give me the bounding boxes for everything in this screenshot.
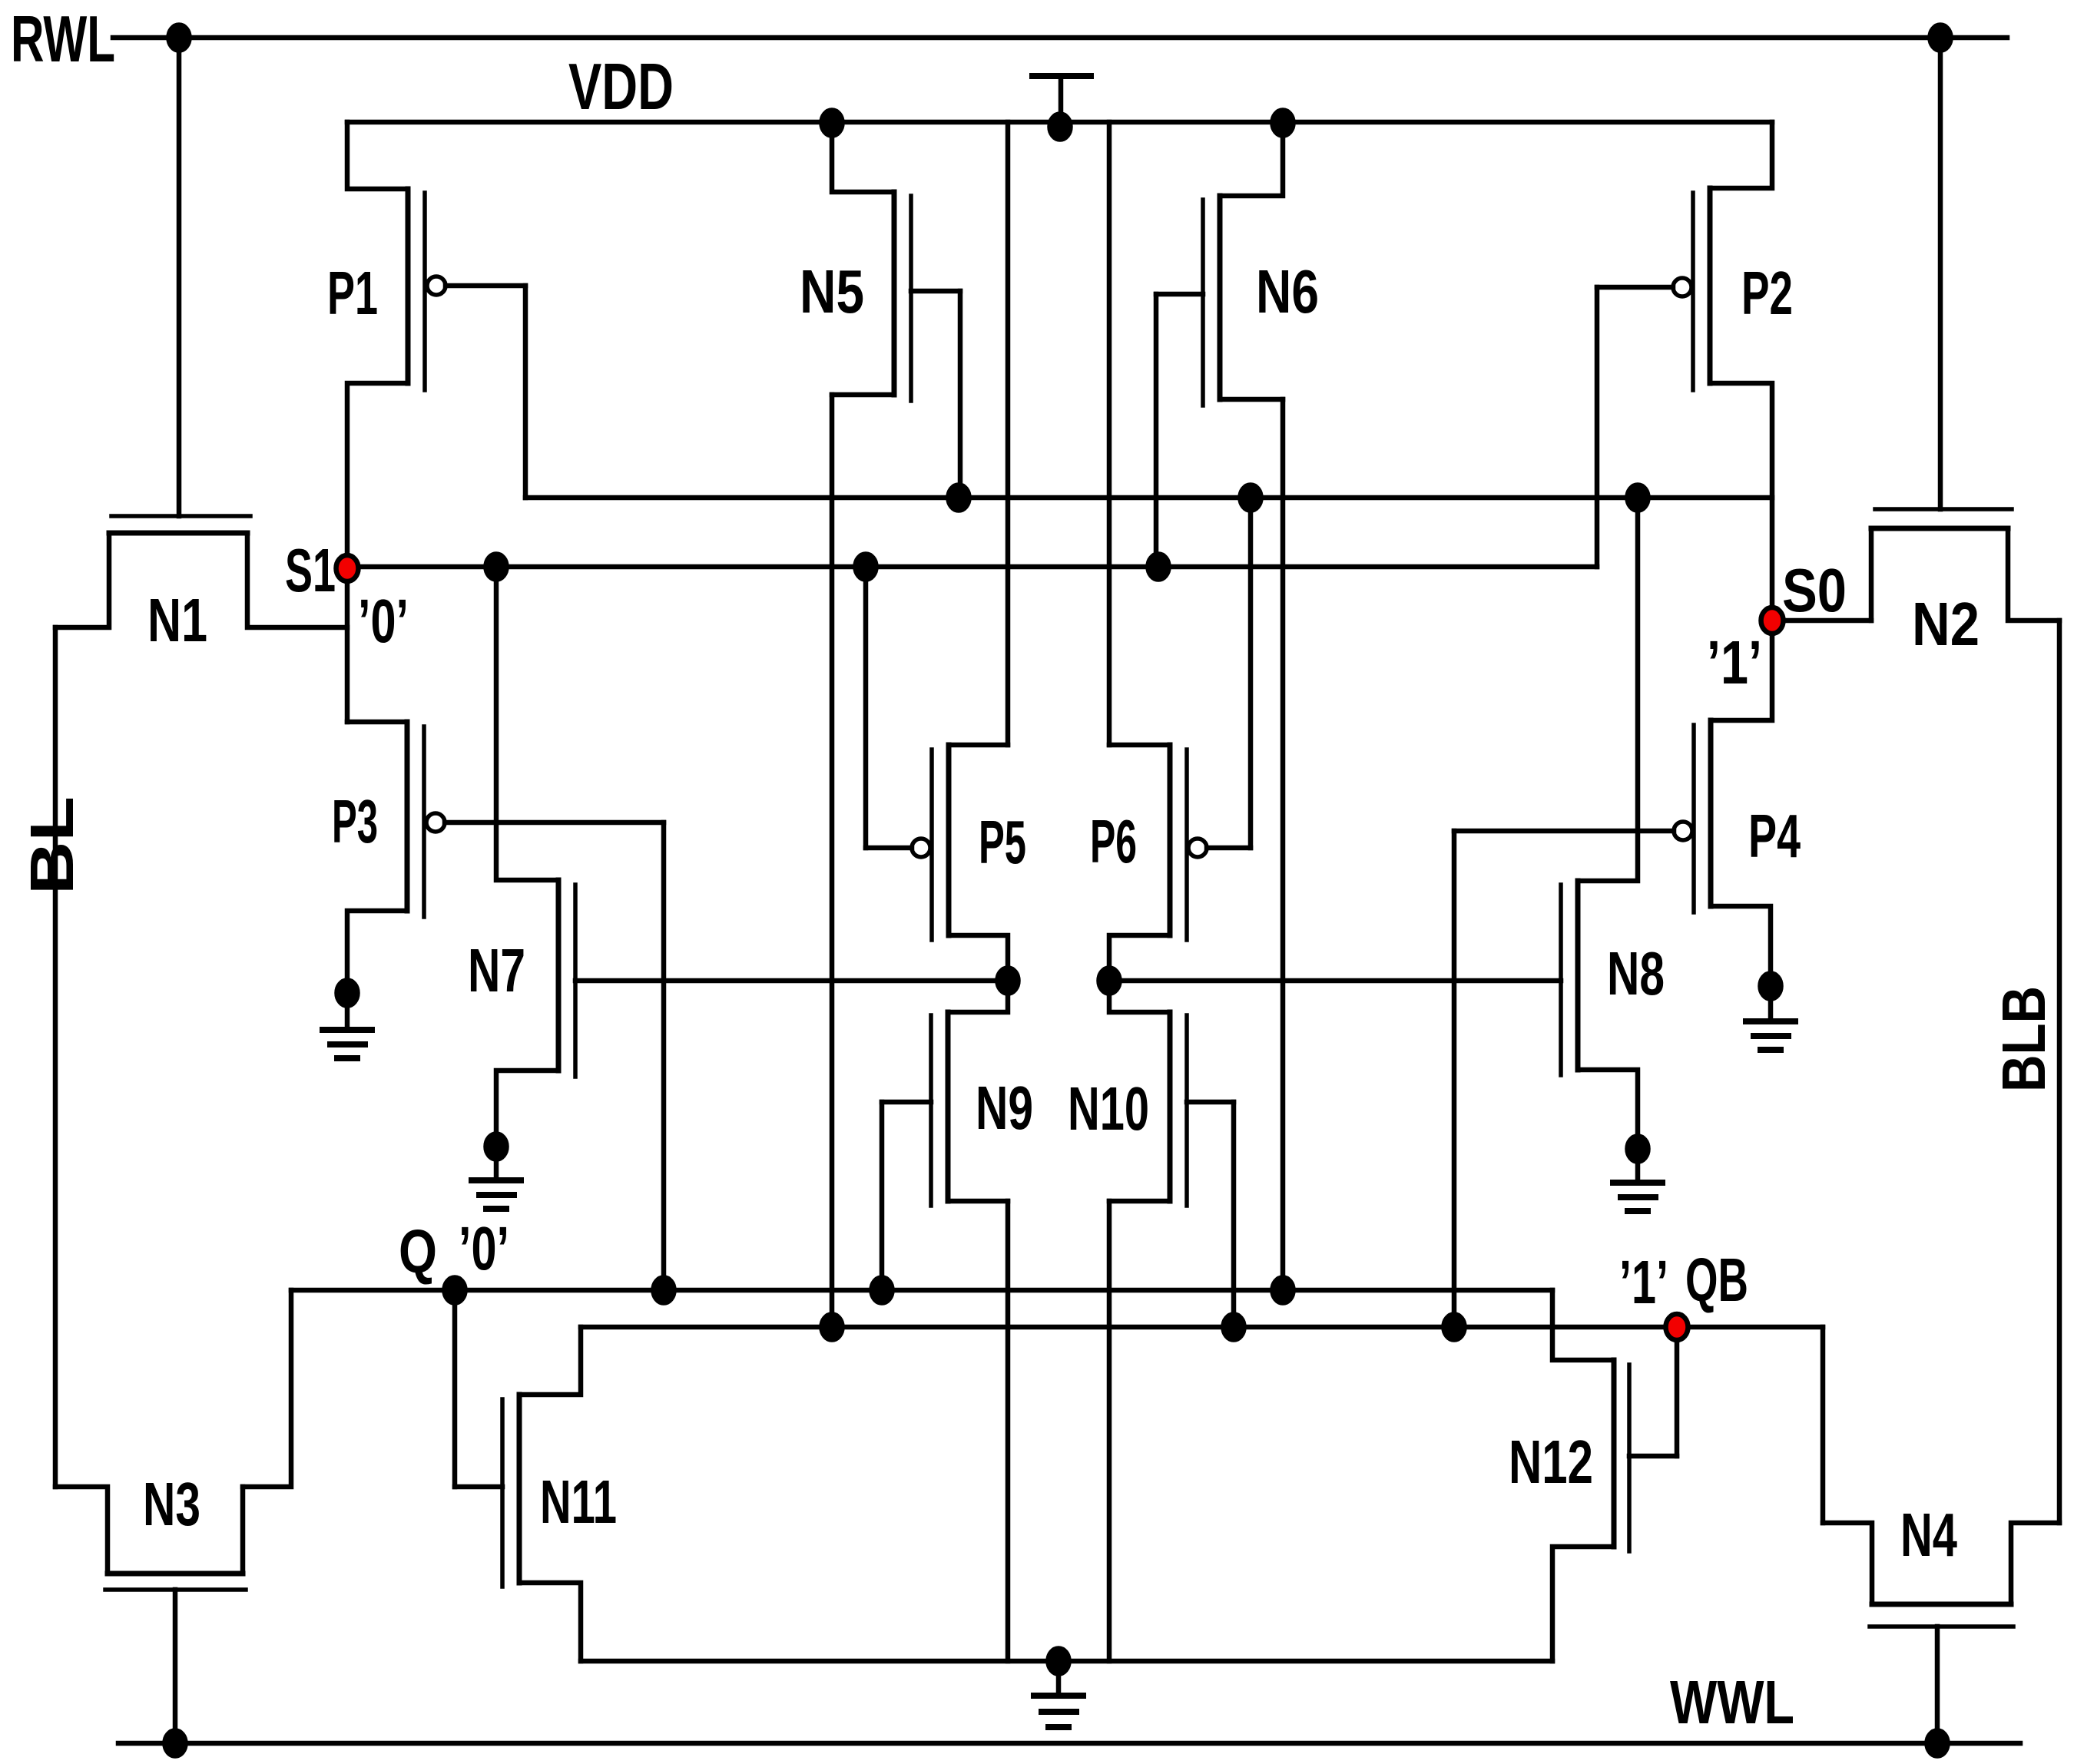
transistor N6 bbox=[1156, 123, 1283, 405]
label N8 bbox=[1607, 939, 1665, 1008]
svg-text:P6: P6 bbox=[1090, 807, 1137, 875]
wire P6 gate up to CC bbox=[1248, 498, 1254, 848]
svg-text:P4: P4 bbox=[1748, 802, 1801, 870]
wire bottom source rail bbox=[581, 1659, 1552, 1664]
svg-text:BL: BL bbox=[18, 796, 86, 895]
wire BL rail bbox=[53, 627, 58, 1487]
power VDD supply symbol bbox=[1032, 76, 1091, 122]
wire N6 source down to Q row bbox=[1281, 399, 1286, 1290]
label Q value '0' bbox=[459, 1214, 509, 1282]
svg-text:P3: P3 bbox=[332, 787, 378, 856]
label N9 bbox=[976, 1074, 1033, 1142]
label N10 bbox=[1068, 1074, 1149, 1143]
label N4 bbox=[1900, 1501, 1957, 1569]
label RWL bbox=[11, 3, 115, 76]
node QB bbox=[1666, 1314, 1688, 1340]
ground below N8 bbox=[1613, 1137, 1662, 1212]
transistor P1 bbox=[347, 122, 525, 722]
svg-text:WWL: WWL bbox=[1670, 1668, 1794, 1736]
node RWL-N1 junction bbox=[169, 25, 190, 51]
label VDD bbox=[568, 51, 674, 124]
node WWL-N3 junction bbox=[165, 1731, 186, 1756]
label N3 bbox=[143, 1470, 200, 1538]
ground center bottom bbox=[1034, 1661, 1083, 1727]
node VDD-N5 junction bbox=[822, 111, 843, 136]
wire N10 gate down to QB row bbox=[1231, 1102, 1237, 1327]
node S1-N7 junction bbox=[486, 554, 507, 580]
wire WWL bbox=[118, 1741, 2020, 1746]
transistor N12 bbox=[1552, 1290, 1677, 1661]
svg-text:’0’: ’0’ bbox=[459, 1214, 509, 1282]
wire QB row to N4 bbox=[1821, 1327, 1826, 1523]
svg-text:N6: N6 bbox=[1256, 257, 1319, 326]
wire RWL to N1 gate bbox=[177, 38, 182, 516]
wire RWL to N2 gate bbox=[1938, 38, 1943, 509]
transistor N5 bbox=[832, 122, 960, 401]
wire VDD rail bbox=[347, 120, 1772, 125]
node QB-P4gate junction bbox=[1444, 1315, 1465, 1340]
label S0 value '1' bbox=[1707, 628, 1762, 697]
svg-text:N10: N10 bbox=[1068, 1074, 1149, 1143]
svg-text:N2: N2 bbox=[1912, 590, 1980, 658]
label WWL bbox=[1670, 1668, 1794, 1736]
node WWL-N4 junction bbox=[1927, 1731, 1948, 1756]
ground below P3 bbox=[323, 981, 372, 1059]
transistor N11 bbox=[455, 1327, 581, 1661]
transistor P6 bbox=[1109, 745, 1251, 981]
transistor N4 bbox=[1823, 1523, 2059, 1743]
label N5 bbox=[800, 257, 864, 326]
node rail-ground junction bbox=[1049, 1649, 1069, 1674]
label P6 bbox=[1090, 807, 1137, 875]
svg-text:’1’: ’1’ bbox=[1619, 1248, 1668, 1316]
svg-text:N5: N5 bbox=[800, 257, 864, 326]
transistor N7 bbox=[496, 567, 1008, 1147]
ground below P4 bbox=[1746, 974, 1795, 1051]
label N6 bbox=[1256, 257, 1319, 326]
node RWL-N2 junction bbox=[1930, 25, 1951, 51]
node Q-N6source junction bbox=[1273, 1278, 1294, 1303]
transistor P3 bbox=[347, 722, 664, 993]
label S0 bbox=[1782, 556, 1847, 624]
wire P2 gate down to S1 row bbox=[1595, 287, 1600, 567]
transistor P4 bbox=[1454, 621, 1772, 986]
svg-text:N9: N9 bbox=[976, 1074, 1033, 1142]
transistor N10 bbox=[1109, 981, 1234, 1206]
svg-text:BLB: BLB bbox=[1990, 986, 2058, 1092]
svg-text:S1: S1 bbox=[285, 536, 336, 604]
label QB value '1' bbox=[1619, 1248, 1668, 1316]
transistor N9 bbox=[882, 981, 1008, 1206]
svg-text:N8: N8 bbox=[1607, 939, 1665, 1008]
node S1-N6gate junction bbox=[1148, 554, 1169, 580]
wire P5 gate up to S1 row bbox=[863, 567, 869, 848]
svg-text:QB: QB bbox=[1685, 1246, 1748, 1314]
node QB-N5source junction bbox=[822, 1315, 843, 1340]
wire N5 gate to CC bbox=[958, 291, 963, 498]
node QB-N10gate junction bbox=[1224, 1315, 1244, 1340]
wire VDD feed to P5 bbox=[1006, 122, 1011, 745]
svg-text:RWL: RWL bbox=[11, 3, 115, 76]
label BLB bbox=[1990, 986, 2058, 1092]
svg-text:N1: N1 bbox=[147, 586, 207, 654]
node P5-N9 drain junction bbox=[998, 968, 1019, 994]
label P1 bbox=[327, 259, 378, 327]
label N2 bbox=[1912, 590, 1980, 658]
node P6-N10 drain junction bbox=[1099, 968, 1120, 994]
label Q bbox=[399, 1217, 437, 1286]
transistor N3 bbox=[55, 1487, 246, 1743]
node S0 bbox=[1761, 607, 1784, 634]
svg-text:N12: N12 bbox=[1509, 1428, 1593, 1496]
svg-text:Q: Q bbox=[399, 1217, 437, 1286]
node Q-N9gate junction bbox=[872, 1278, 893, 1303]
wire P3 gate down to Q row bbox=[661, 822, 667, 1290]
transistor N2 bbox=[1871, 509, 2059, 621]
label S1 value '0' bbox=[358, 587, 409, 655]
ground below N7 bbox=[472, 1134, 521, 1210]
svg-text:S0: S0 bbox=[1782, 556, 1847, 624]
wire N9 gate down to Q row bbox=[880, 1102, 885, 1290]
node CC-N5gate junction bbox=[949, 485, 969, 511]
wire N8 gate row bbox=[1109, 978, 1561, 984]
node VDD-N6 junction bbox=[1273, 111, 1294, 136]
node Q-P3gate junction bbox=[654, 1278, 674, 1303]
wire P1 gate to CC line bbox=[523, 286, 528, 498]
svg-text:’0’: ’0’ bbox=[358, 587, 409, 655]
node CC-P6gate junction bbox=[1241, 485, 1261, 511]
wire S0 to N2 bbox=[1772, 618, 1871, 624]
label P3 bbox=[332, 787, 378, 856]
label BL bbox=[18, 796, 86, 895]
label P5 bbox=[979, 808, 1026, 876]
wire cross-couple S0 line (P1,N5,P6,N8 gates to S0) bbox=[525, 495, 1772, 501]
node S1 bbox=[336, 555, 359, 581]
label QB bbox=[1685, 1246, 1748, 1314]
node Q-N11gate junction bbox=[445, 1278, 465, 1303]
transistor P2 bbox=[1597, 122, 1772, 621]
svg-text:N11: N11 bbox=[540, 1468, 617, 1536]
label N1 bbox=[147, 586, 207, 654]
svg-text:N7: N7 bbox=[468, 936, 525, 1004]
wire QB row bbox=[581, 1325, 1823, 1330]
node VDD stem junction bbox=[1050, 114, 1071, 140]
label N12 bbox=[1509, 1428, 1593, 1496]
wire N5 source down to QB row bbox=[830, 395, 835, 1327]
wire N12 gate up to QB row bbox=[1675, 1327, 1680, 1456]
transistor N1 bbox=[55, 516, 347, 627]
wire N11 gate up to Q row bbox=[452, 1290, 458, 1487]
svg-text:’1’: ’1’ bbox=[1707, 628, 1762, 697]
label P2 bbox=[1741, 259, 1793, 327]
node S1-P5gate junction bbox=[856, 554, 876, 580]
wire RWL bbox=[113, 35, 2007, 41]
wire P4 gate down to QB row bbox=[1452, 831, 1457, 1327]
wire Q row to N3 bbox=[243, 1290, 291, 1487]
label N11 bbox=[540, 1468, 617, 1536]
svg-text:P1: P1 bbox=[327, 259, 378, 327]
svg-text:P5: P5 bbox=[979, 808, 1026, 876]
svg-text:N3: N3 bbox=[143, 1470, 200, 1538]
node CC-N8drain junction bbox=[1628, 485, 1648, 511]
transistor N8 bbox=[1561, 498, 1638, 1149]
wire N9 source down to bottom rail bbox=[1006, 1201, 1011, 1661]
svg-text:P2: P2 bbox=[1741, 259, 1793, 327]
wire BLB rail bbox=[2057, 621, 2062, 1523]
label N7 bbox=[468, 936, 525, 1004]
wire N10 source down to bottom rail bbox=[1107, 1201, 1112, 1661]
wire VDD feed to P6 bbox=[1107, 122, 1112, 745]
wire N6 gate to S1 row bbox=[1154, 294, 1159, 567]
label S1 bbox=[285, 536, 336, 604]
svg-text:N4: N4 bbox=[1900, 1501, 1957, 1569]
wire Q row bbox=[291, 1288, 1552, 1293]
svg-text:VDD: VDD bbox=[568, 51, 674, 124]
wire S1 row bbox=[347, 564, 1597, 570]
transistor P5 bbox=[866, 745, 1008, 981]
label P4 bbox=[1748, 802, 1801, 870]
